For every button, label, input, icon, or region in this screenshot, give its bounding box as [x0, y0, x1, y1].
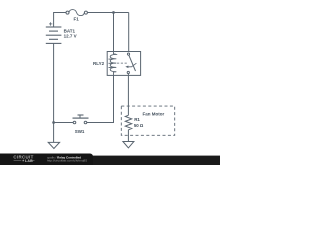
resistor R1 [125, 115, 131, 130]
relay RLY2 box [107, 52, 140, 76]
svg-text:12.7 V: 12.7 V [64, 33, 77, 38]
wire fuse to top-right corner [87, 12, 128, 14]
wire relay switch bottom to resistor [127, 75, 129, 115]
ground left [48, 142, 59, 148]
junction node top [112, 11, 115, 14]
battery plus sign [49, 22, 52, 25]
battery BAT1 plates [46, 27, 62, 43]
svg-text:Fan Motor: Fan Motor [143, 112, 165, 117]
logo bolt [22, 159, 24, 162]
wire resistor to ground [127, 130, 129, 142]
svg-text:http://circuitlab.com/c/krbnq9: http://circuitlab.com/c/krbnq9S [47, 158, 87, 162]
ground right [123, 142, 134, 148]
wire down to relay switch top [128, 13, 130, 52]
svg-text:LAB: LAB [25, 159, 33, 163]
labels [64, 17, 165, 135]
relay actuator arrow [125, 63, 136, 68]
switch SW1 [73, 115, 89, 124]
wire battery bottom down to ground [53, 43, 55, 142]
relay coil [109, 52, 117, 76]
svg-text:50 Ω: 50 Ω [134, 123, 144, 128]
wire down to relay coil top [113, 13, 115, 52]
junction node left [52, 121, 55, 124]
watermark bar [0, 154, 220, 168]
logo lab [14, 159, 35, 161]
wire SW1 right segment up to relay coil bottom [87, 75, 114, 122]
fuse F1 [66, 10, 87, 16]
svg-text:F1: F1 [74, 17, 80, 22]
wire SW1 left segment [54, 122, 74, 124]
fan motor dashed box [121, 106, 174, 135]
relay switch contacts [127, 53, 135, 75]
svg-text:RLY2: RLY2 [93, 61, 105, 66]
svg-text:R1: R1 [134, 117, 140, 122]
svg-text:SW1: SW1 [75, 129, 85, 134]
relay actuator dashed line [117, 62, 127, 64]
wire battery top to fuse [54, 13, 67, 28]
